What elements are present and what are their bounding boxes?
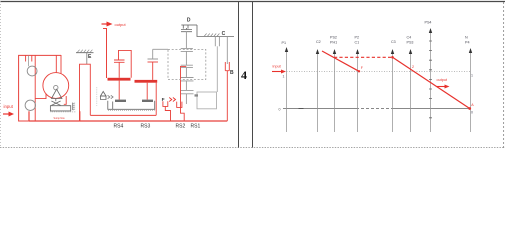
orifice F cup [163,101,168,106]
svg-text:E: E [88,54,92,60]
stem tail [185,94,187,104]
axis C4 PS3 [410,52,412,132]
svg-text:RS2: RS2 [176,124,186,130]
cap C plates [181,78,194,81]
svg-text:C2: C2 [316,40,321,44]
svg-text:1: 1 [283,75,285,79]
cylinder housing [108,101,155,110]
svg-text:PS3: PS3 [407,41,414,45]
C chain stem [216,46,218,92]
svg-text:4: 4 [241,68,247,82]
orifice chevrons [169,98,175,102]
wire stub a [25,55,27,62]
tap wire from D chain [181,66,187,121]
D chain stem [185,32,187,49]
axis PS2 PH1 [334,52,336,132]
roller R_a (upper gray circle) [27,66,37,76]
panel divider right line [252,2,254,148]
cylinder hatch [108,110,155,112]
stem [185,81,187,91]
axis P1 [286,50,288,132]
wall E hatched support [76,52,94,54]
piston rod RS3 [146,83,148,100]
bottom red bus [80,120,228,122]
svg-text:C1: C1 [355,41,360,45]
svg-text:RS1: RS1 [191,124,201,130]
svg-text:C: C [222,31,226,37]
piston head RS4 [115,100,126,102]
piston rod RS4 [118,81,120,100]
piston box C [197,92,217,109]
damper E piston rod [86,53,88,64]
roller R_b (lower gray circle) [25,100,35,110]
rail wire from damper to bar2 drop [90,114,156,116]
red segment 2 [393,57,470,108]
M2 gray plate [148,58,159,60]
axis P2 C1 [357,52,359,132]
svg-text:N: N [465,36,468,40]
wall from D to C [197,25,234,37]
pump shaft stem [55,99,57,102]
capacitor plates on M1 [114,60,125,62]
svg-text:PS4: PS4 [425,21,432,25]
piston box tab [195,94,199,96]
svg-text:P2: P2 [355,36,360,40]
svg-text:C3: C3 [391,40,396,44]
red dashed level [334,56,393,58]
axis tick mark [299,108,304,110]
svg-text:A: A [471,103,474,107]
relief valve chevrons [108,95,114,98]
svg-text:RS3: RS3 [141,124,151,130]
frame right border [503,2,505,148]
wall hatches [204,34,219,37]
dotted level line [287,71,471,73]
svg-text:input: input [273,65,282,69]
M1 stem [118,62,120,78]
svg-text:output: output [437,78,449,82]
relief valve box [101,96,107,100]
coupling box [50,106,70,111]
svg-text:Sump flow: Sump flow [54,117,65,120]
B cup [225,62,229,71]
svg-text:B: B [230,70,234,76]
axis C3 [392,52,394,132]
svg-text:PS2: PS2 [330,36,337,40]
axis PS4 [430,31,432,132]
piston bar B2 [135,80,158,83]
panel divider left line [238,2,240,148]
node start segment 2 [391,56,394,59]
wire pump outlet [64,96,66,104]
coupling box hook [51,111,77,113]
wire pump suction jog [35,94,46,99]
pump inner pivot circle [54,85,58,89]
ground wall hatches [73,103,75,110]
graph input arrow [272,71,281,73]
svg-text:output: output [115,22,127,27]
damper E red cylinder [80,64,91,121]
mass chain M1 staple [119,50,132,77]
svg-text:1: 1 [471,74,473,78]
svg-text:input: input [4,104,14,109]
coupling X (bowtie) [51,101,60,105]
spring top wire to dashed box [153,48,168,50]
orifice F stem [165,106,170,121]
B stem to bus [226,71,228,121]
x axis [283,108,356,110]
wire shaft line through rollers [34,55,36,121]
support D T-bar [181,24,197,26]
svg-text:P1: P1 [282,41,287,45]
ground wall right of coupling [72,103,74,110]
cap D plates [181,90,194,93]
node end segment 1 [358,70,360,72]
cap A plates [181,48,193,51]
relief valve triangle [101,92,107,97]
wire right side of loop [56,55,61,74]
svg-text:0: 0 [279,108,281,112]
svg-text:2: 2 [412,65,414,69]
stem [185,68,187,78]
svg-text:RS4: RS4 [114,124,124,130]
node A [468,107,471,110]
frame top border [0,1,505,3]
accumulator bracket [177,102,182,108]
M2 top stem gray [152,49,154,58]
capacitor D plates [181,30,192,32]
input arrow [3,113,9,115]
PS4 ticks [429,41,432,118]
svg-text:0: 0 [471,111,473,115]
frame bottom border [0,147,505,149]
stem [185,51,187,65]
svg-text:F: F [361,66,364,70]
output wire [103,29,107,79]
gray stub to roller [27,56,29,67]
wire stub b [31,55,33,62]
dashed subsystem box [168,50,206,80]
C prongs [215,37,219,47]
graph output arrow [437,86,445,88]
frame left border [0,1,2,148]
wire left loop [19,55,61,121]
bar B2 drop wire [155,83,157,116]
relief valve anchor dotted wall [96,87,98,106]
M2 red plate [148,61,159,63]
B feed gray wire [226,37,228,65]
svg-text:D: D [187,17,191,23]
piston bar B1 [108,78,131,81]
M2 red stem [152,62,154,80]
svg-text:PH1: PH1 [330,41,337,45]
svg-text:C4: C4 [407,36,412,40]
axis N P4 [470,51,472,132]
axis C2 [317,52,319,132]
cap B plates [181,65,193,67]
pump P (red circle) [43,73,69,99]
red segment 1 [322,51,359,71]
piston head RS3 [142,100,153,102]
pump triangle [52,89,62,98]
support D prongs [183,25,188,30]
sump tank [29,111,80,121]
output arrow [102,23,108,25]
svg-text:P4: P4 [465,41,470,45]
